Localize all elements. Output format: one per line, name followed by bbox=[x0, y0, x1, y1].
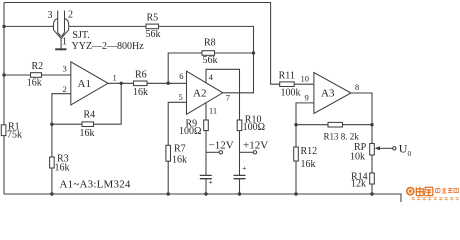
wire: R4 left wire bbox=[52, 123, 82, 125]
svg-text:12k: 12k bbox=[351, 179, 366, 190]
wire: R3 bottom to ground rail bbox=[51, 168, 53, 194]
crystal right prong bbox=[61, 19, 68, 39]
wire: A1 pin2 to feedback node bbox=[52, 94, 71, 125]
crystal SJT pin3 lead bbox=[57, 11, 59, 33]
svg-text:5: 5 bbox=[179, 92, 183, 102]
svg-text:+12V: +12V bbox=[243, 139, 268, 151]
svg-text:2: 2 bbox=[63, 84, 67, 94]
watermark bold glyph block 1 bbox=[416, 187, 433, 196]
wire: top feedback line from left rail to R11 bbox=[4, 3, 280, 85]
svg-text:SJT.: SJT. bbox=[72, 30, 89, 41]
wire: +12V terminal stub bbox=[240, 151, 254, 153]
resistor R12 body bbox=[294, 147, 299, 161]
resistor R4 body bbox=[82, 122, 94, 127]
svg-text:16k: 16k bbox=[301, 159, 316, 170]
potentiometer RP body bbox=[370, 144, 375, 156]
wire: capacitor C1 to ground rail bbox=[205, 179, 207, 194]
wire: R2 to A1 pin3 bbox=[42, 74, 71, 76]
wire: node down to R12 bbox=[295, 125, 297, 147]
svg-text:7: 7 bbox=[226, 93, 230, 103]
resistor R8 body bbox=[202, 51, 215, 56]
svg-text:A1: A1 bbox=[78, 78, 91, 90]
watermark tiny bottom row bbox=[412, 198, 460, 201]
wire: capacitor C2 to ground rail bbox=[239, 179, 241, 194]
svg-text:10: 10 bbox=[301, 74, 310, 84]
wire: R10 bottom to +12V node bbox=[239, 131, 241, 153]
resistor R1 body bbox=[1, 125, 6, 136]
svg-text:U: U bbox=[399, 142, 408, 156]
op-amp A2 bbox=[187, 71, 223, 114]
svg-text:56k: 56k bbox=[203, 55, 218, 66]
svg-text:R6: R6 bbox=[135, 70, 147, 81]
terminal +12V bbox=[253, 151, 256, 154]
wire: RP to R14 bbox=[371, 155, 373, 173]
watermark small glyph row bbox=[436, 188, 459, 193]
resistor R2 body bbox=[31, 73, 42, 78]
watermark logo bbox=[406, 187, 459, 201]
svg-text:1: 1 bbox=[113, 72, 117, 82]
svg-text:9: 9 bbox=[305, 93, 309, 103]
svg-text:0: 0 bbox=[408, 149, 412, 158]
wire: node to R13 bbox=[296, 124, 328, 126]
svg-text:10k: 10k bbox=[350, 151, 365, 162]
svg-text:16k: 16k bbox=[27, 78, 42, 89]
resistor R13 body bbox=[328, 122, 343, 127]
svg-text:R13 8. 2k: R13 8. 2k bbox=[324, 131, 360, 141]
svg-text:A3: A3 bbox=[321, 88, 335, 100]
svg-text:16k: 16k bbox=[172, 155, 187, 166]
svg-text:R2: R2 bbox=[32, 61, 44, 72]
svg-text:6: 6 bbox=[179, 71, 183, 81]
svg-text:100Ω: 100Ω bbox=[243, 122, 265, 133]
wire: R13 to output column bbox=[343, 124, 373, 126]
resistor R5 body bbox=[146, 24, 159, 29]
wire: A3 pin9 to feedback node bbox=[296, 103, 314, 125]
svg-text:100k: 100k bbox=[281, 88, 301, 99]
wire: -12V terminal stub bbox=[206, 151, 219, 153]
svg-text:A2: A2 bbox=[193, 88, 206, 100]
terminal -12V bbox=[219, 151, 222, 154]
pin numbers bbox=[63, 64, 360, 116]
terminal U0 bbox=[393, 147, 396, 150]
wire: node to R3 bbox=[51, 124, 53, 157]
svg-text:75k: 75k bbox=[7, 130, 22, 141]
wire: R5 right to A2 output vertical and down to A2 output bbox=[159, 26, 254, 92]
resistor R11 body bbox=[280, 82, 295, 87]
op-amp A3 bbox=[314, 73, 351, 114]
watermark circle icon bbox=[406, 187, 415, 196]
svg-text:1: 1 bbox=[62, 36, 67, 47]
svg-text:3: 3 bbox=[48, 10, 53, 21]
resistor R3 body bbox=[50, 157, 55, 168]
resistor R9 body bbox=[204, 120, 209, 131]
wire: R8 right to output vertical bbox=[215, 52, 254, 54]
wire: R11 to A3 pin10 bbox=[294, 83, 314, 85]
svg-text:YYZ—2—800Hz: YYZ—2—800Hz bbox=[72, 41, 145, 52]
capacitor C1 plates bbox=[200, 175, 212, 178]
wire: A2 pin5 down to R7 bbox=[168, 102, 186, 145]
wire: R14 to ground rail bbox=[371, 184, 373, 194]
crystal converge lines bbox=[58, 33, 65, 37]
svg-text:100Ω: 100Ω bbox=[179, 126, 201, 137]
wire: crystal node wire left segment bbox=[4, 25, 53, 27]
wire: A3 output down right column to RP bbox=[351, 93, 372, 144]
svg-text:−12V: −12V bbox=[209, 139, 234, 151]
potentiometer RP wiper arrow bbox=[378, 147, 393, 149]
wire: +12V node down to capacitor C2 bbox=[239, 152, 241, 175]
wire: -12V node down to capacitor C1 bbox=[205, 152, 207, 175]
resistor R7 body bbox=[166, 145, 171, 161]
svg-text:R8: R8 bbox=[204, 38, 216, 49]
wire: left rail to R2 bbox=[4, 74, 31, 76]
op-amp designators bbox=[78, 78, 335, 100]
wire: R9 bottom to -12V node bbox=[205, 131, 207, 153]
ground bar bbox=[55, 48, 66, 50]
svg-text:R12: R12 bbox=[301, 146, 318, 157]
svg-text:+: + bbox=[209, 178, 214, 187]
crystal left prong bbox=[54, 19, 61, 39]
wire: crystal node to R5 bbox=[69, 25, 146, 27]
crystal stem bbox=[60, 38, 62, 49]
svg-text:16k: 16k bbox=[133, 87, 148, 98]
svg-text:+: + bbox=[242, 164, 247, 173]
svg-text:3: 3 bbox=[63, 64, 67, 74]
svg-text:R11: R11 bbox=[279, 71, 295, 82]
wire: left rail bbox=[3, 3, 5, 195]
wire: R4 to A1 output bbox=[94, 83, 122, 124]
resistor R10 body bbox=[237, 120, 242, 131]
wire: A2 pin4 supply lead over to +12V column bbox=[206, 69, 240, 120]
wire: A1 output to R6 bbox=[108, 82, 134, 84]
svg-text:4: 4 bbox=[209, 72, 214, 82]
svg-text:R4: R4 bbox=[84, 110, 96, 121]
svg-text:R5: R5 bbox=[147, 13, 159, 24]
svg-text:2: 2 bbox=[68, 10, 73, 21]
svg-text:16k: 16k bbox=[80, 128, 95, 139]
wire: R12 bottom to ground rail bbox=[295, 161, 297, 194]
resistor R14 body bbox=[370, 173, 375, 184]
wire: bottom ground rail bbox=[4, 194, 401, 202]
resistor R6 body bbox=[134, 81, 148, 86]
wire: R8 branch from R6 node up bbox=[168, 53, 202, 83]
op-amp A1 bbox=[71, 62, 108, 105]
capacitor C2 plates bbox=[234, 175, 246, 178]
svg-text:8: 8 bbox=[355, 82, 359, 92]
svg-text:R7: R7 bbox=[174, 144, 186, 155]
wire: A2 pin11 down to R9 bbox=[205, 103, 207, 120]
svg-text:11: 11 bbox=[209, 105, 217, 115]
svg-text:16k: 16k bbox=[55, 163, 70, 174]
wire: R6 to A2 pin6 bbox=[147, 82, 187, 84]
crystal pin2 lead bbox=[64, 11, 66, 33]
wire: R7 bottom to ground rail bbox=[167, 161, 169, 194]
svg-text:A1~A3:LM324: A1~A3:LM324 bbox=[60, 178, 131, 190]
svg-text:56k: 56k bbox=[146, 29, 161, 40]
